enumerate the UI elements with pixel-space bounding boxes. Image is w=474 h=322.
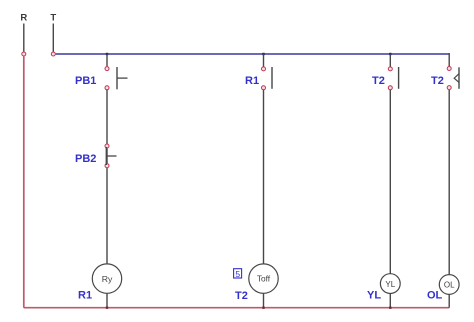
junction red rail / branch 1 xyxy=(106,307,108,309)
svg-text:R1: R1 xyxy=(78,290,92,302)
svg-text:T2: T2 xyxy=(431,75,444,87)
relay coil R1 (Ry) xyxy=(92,264,121,293)
wire T2 contact to lamp YL xyxy=(389,90,391,274)
svg-text:OL: OL xyxy=(444,281,455,290)
lamp YL xyxy=(380,274,400,294)
svg-text:T2: T2 xyxy=(235,290,248,302)
wire PB1 to PB2 to coil xyxy=(106,90,108,264)
svg-text:R1: R1 xyxy=(245,75,259,87)
wire R1 contact to timer xyxy=(263,90,265,264)
node T xyxy=(51,52,55,56)
svg-text:R: R xyxy=(20,13,27,24)
wire lamp OL to bottom rail xyxy=(448,294,450,307)
wire branch4 drop from blue rail corner xyxy=(448,53,450,66)
wire coil to bottom rail xyxy=(106,293,108,307)
junction red rail / branch 2 xyxy=(262,307,264,309)
svg-text:T2: T2 xyxy=(372,75,385,87)
pushbutton PB1 (NO) xyxy=(105,67,128,90)
svg-text:Toff: Toff xyxy=(257,273,271,283)
svg-text:PB2: PB2 xyxy=(75,153,96,165)
lamp OL xyxy=(439,275,459,295)
svg-text:PB1: PB1 xyxy=(75,75,96,87)
contact R1 (NO) xyxy=(262,67,273,90)
wire T2 NC contact to lamp OL xyxy=(448,90,450,275)
wire branch3 from rail to T2 contact xyxy=(389,54,391,67)
junction blue rail / branch 1 xyxy=(106,53,108,55)
contact T2 (NO) xyxy=(388,67,398,90)
wire left red rail xyxy=(23,56,25,307)
wire branch1 from rail to PB1 xyxy=(106,54,108,66)
svg-text:YL: YL xyxy=(385,280,395,289)
wire branch2 from rail to R1 contact xyxy=(263,54,265,67)
pushbutton PB2 (NC) xyxy=(105,144,117,168)
contact T2 (NC off-delay) xyxy=(447,67,459,90)
wire top blue rail xyxy=(56,53,450,55)
junction blue rail / branch 2 xyxy=(262,53,264,55)
svg-text:OL: OL xyxy=(427,290,443,302)
wire bottom red rail xyxy=(24,307,449,309)
svg-text:T: T xyxy=(50,13,56,24)
wire T drop xyxy=(52,24,54,52)
svg-text:YL: YL xyxy=(367,290,381,302)
node R xyxy=(22,52,26,56)
timer preset value 5 xyxy=(234,269,242,279)
wire timer to bottom rail xyxy=(263,293,265,307)
wire R drop xyxy=(23,24,25,52)
svg-text:5: 5 xyxy=(235,269,240,279)
wire lamp YL to bottom rail xyxy=(389,294,391,308)
timer coil T2 (Toff) xyxy=(249,264,278,293)
junction red rail / branch 3 xyxy=(389,307,391,309)
junction blue rail / branch 3 xyxy=(389,53,391,55)
svg-text:Ry: Ry xyxy=(102,274,113,284)
